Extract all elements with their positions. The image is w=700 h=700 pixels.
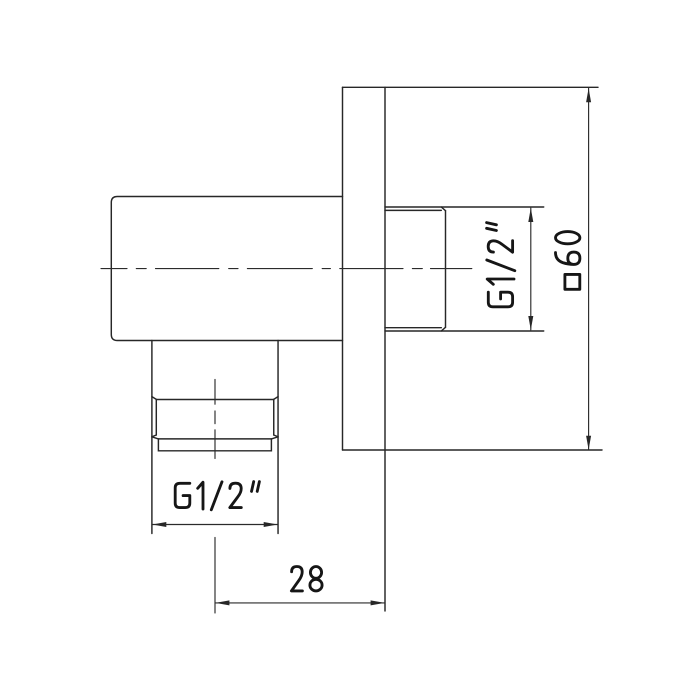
text square 60 (rotated): [556, 232, 580, 290]
28 dimension line: [215, 602, 384, 604]
pipe thread root right: [273, 400, 275, 436]
arrow right 28 dim: [371, 600, 385, 605]
horizontal centerline: [101, 268, 472, 270]
G1/2 bottom dimension line: [152, 524, 277, 526]
arrow right G1/2 bottom dim: [264, 522, 278, 527]
arrow left G1/2 bottom dim: [152, 522, 166, 527]
pipe outer right line + G1/2 extension: [277, 341, 279, 534]
wall plate left edge: [342, 87, 344, 450]
connector chamfer top-right: [441, 207, 445, 211]
connector thread crest top + G1/2 extension: [385, 206, 544, 208]
pipe thread runout right: [274, 435, 278, 437]
pipe thread chamfer top-right: [274, 397, 279, 400]
28 left extension line: [214, 538, 216, 614]
pipe end chamfer right: [271, 437, 278, 439]
connector thread root bottom: [385, 327, 441, 329]
arrow down G1/2 right dim: [528, 316, 533, 330]
60 dimension line: [588, 88, 590, 449]
pipe end chamfer left: [152, 437, 159, 439]
wall plate bottom edge + 60-dim extension: [343, 449, 603, 451]
arrow left 28 dim: [215, 600, 229, 605]
pipe thread runout left: [152, 435, 156, 437]
pipe outer left line + G1/2 extension: [151, 341, 153, 534]
body outline (rounded left corners): [111, 197, 342, 341]
wall plate right edge + 28-dim extension: [384, 87, 386, 611]
pipe thread start line: [157, 399, 274, 401]
text G1/2" right (rotated): [487, 223, 515, 307]
text G1/2" bottom: [175, 482, 259, 510]
pipe end ring: [158, 439, 271, 451]
connector chamfer bottom-right: [441, 327, 445, 331]
G1/2 right dimension line: [530, 208, 532, 330]
text 28: [291, 567, 322, 591]
arrow down 60 dim: [586, 436, 591, 450]
arrow up 60 dim: [586, 88, 591, 102]
pipe thread chamfer top-left: [152, 397, 157, 400]
connector thread root top: [385, 209, 441, 211]
wall plate top edge + 60-dim extension: [343, 86, 599, 88]
pipe thread root left: [155, 400, 157, 436]
vertical centerline of pipe: [214, 379, 216, 458]
arrow up G1/2 right dim: [528, 208, 533, 222]
connector thread crest bottom + G1/2 extension: [385, 330, 544, 332]
connector end face: [445, 211, 447, 328]
